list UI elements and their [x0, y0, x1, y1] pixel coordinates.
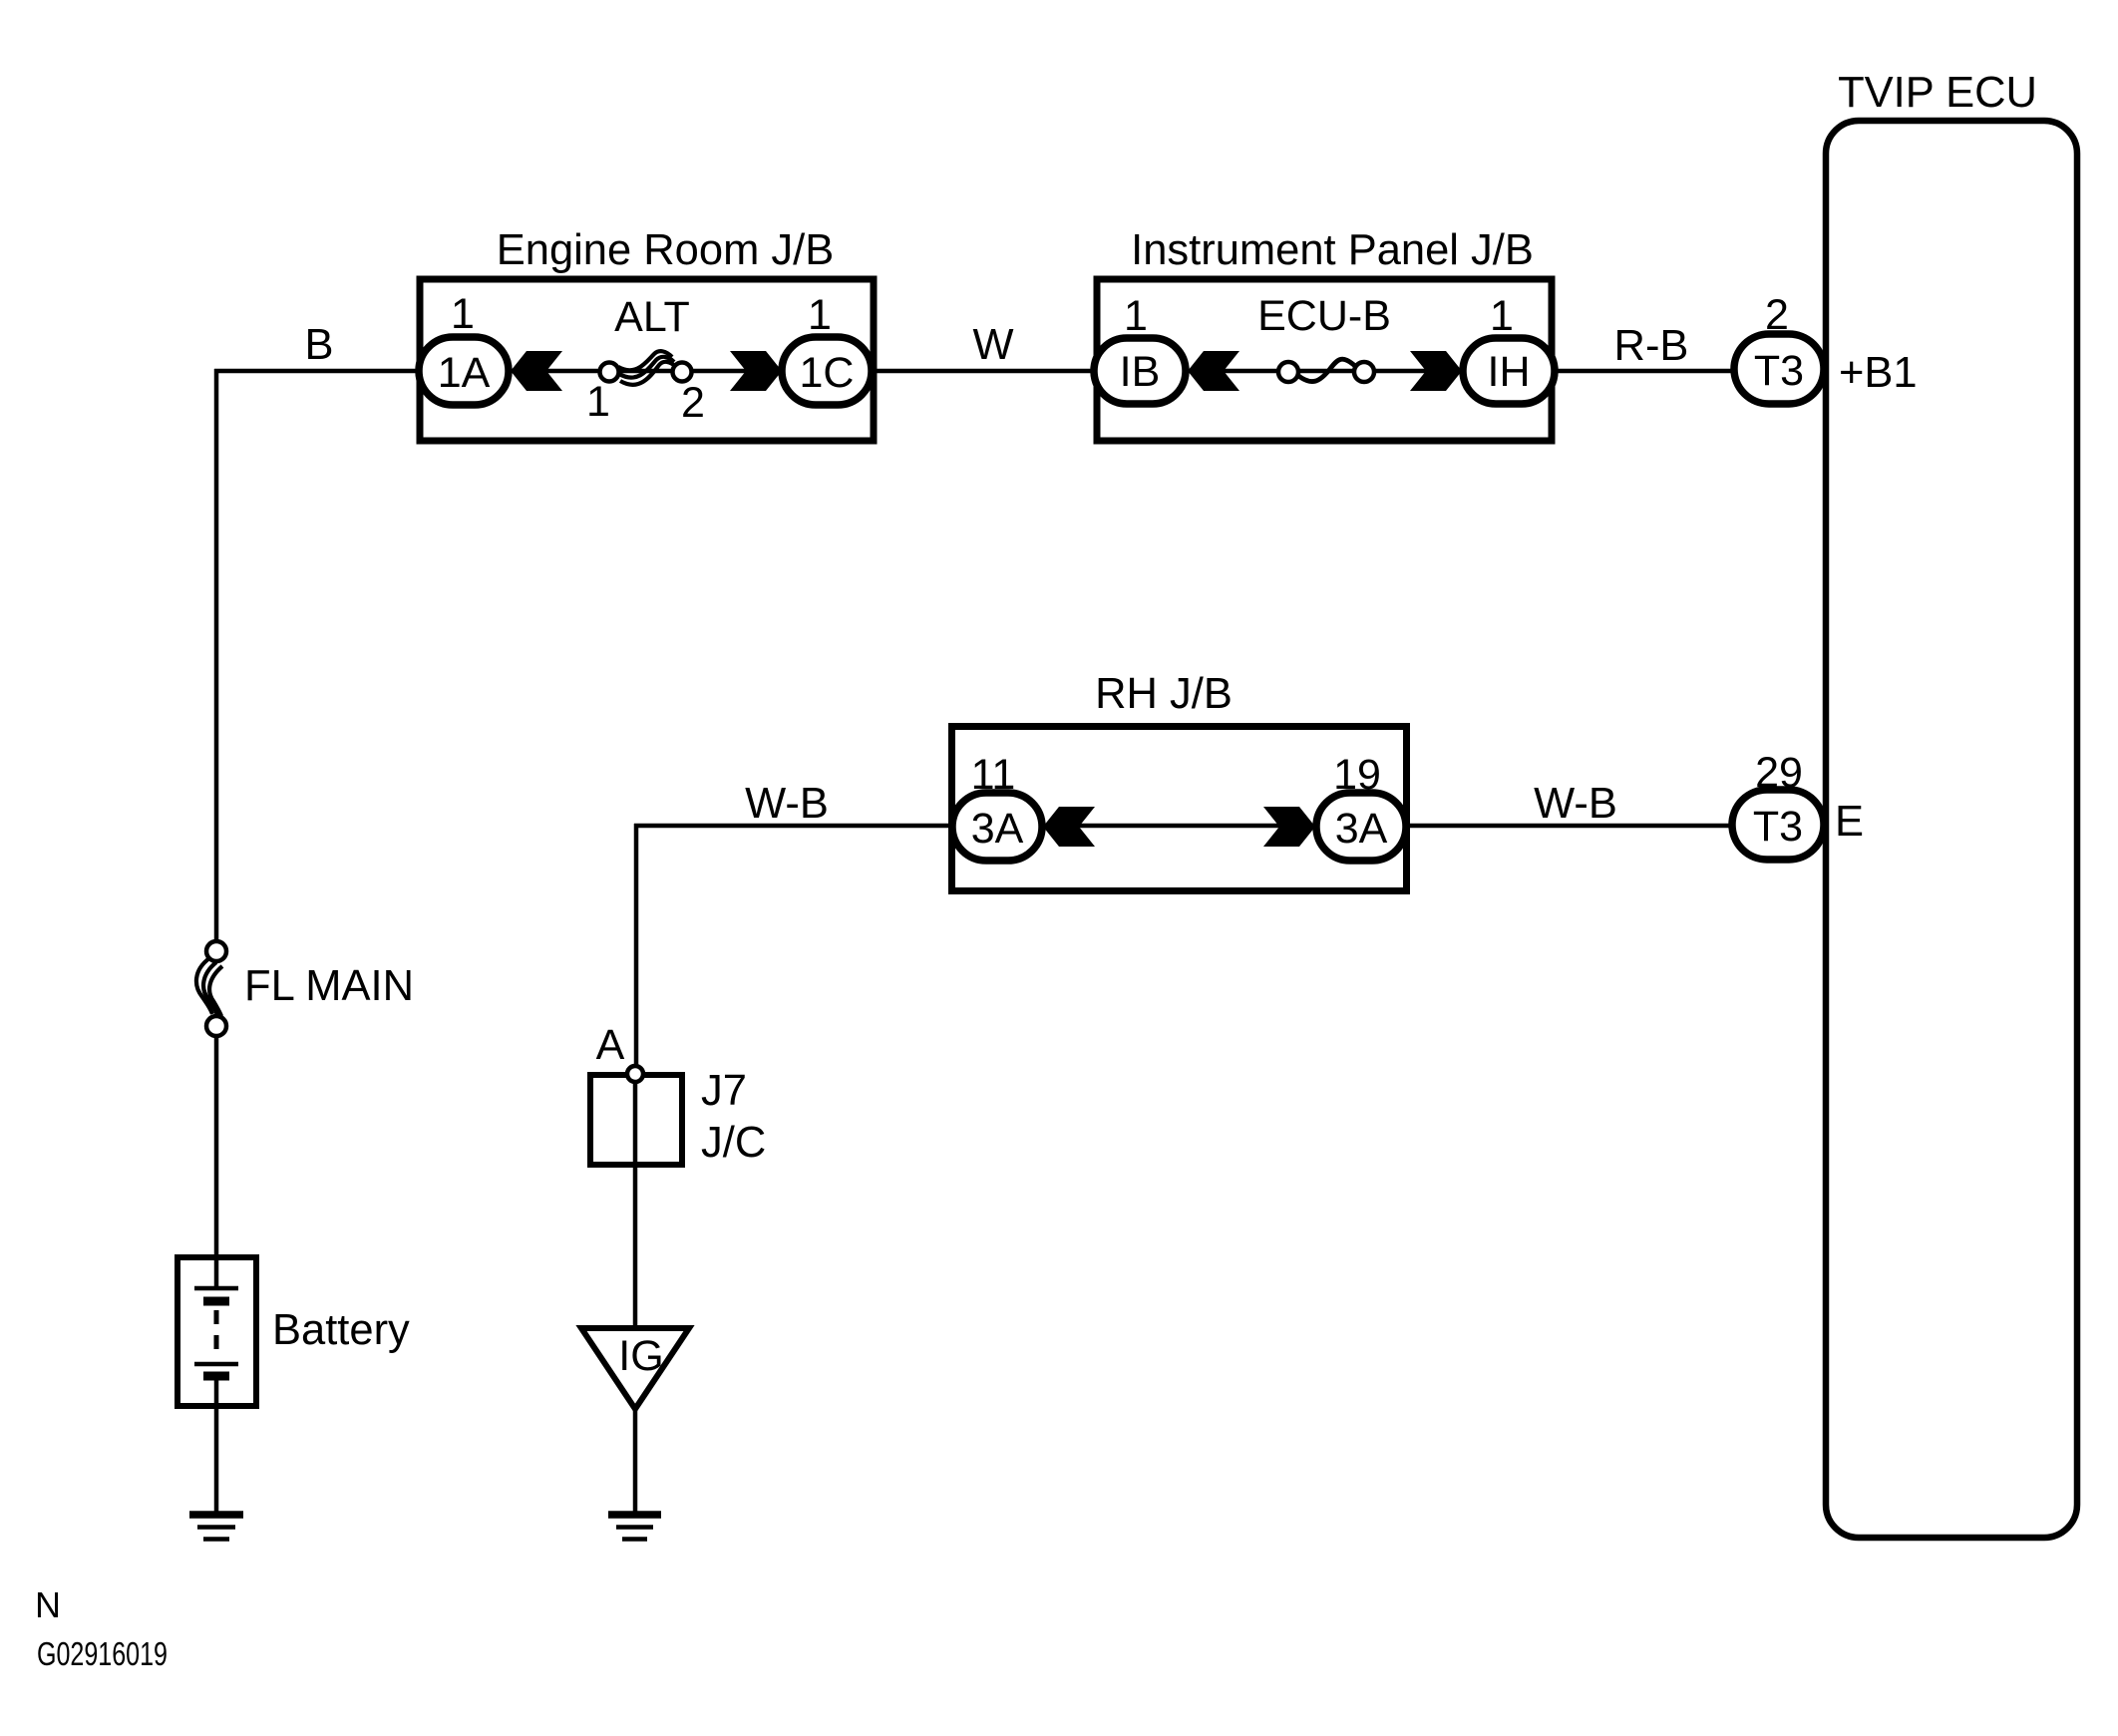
svg-text:TVIP ECU: TVIP ECU — [1838, 69, 2037, 117]
svg-text:R-B: R-B — [1614, 322, 1689, 370]
svg-text:1: 1 — [451, 290, 475, 338]
svg-text:A: A — [596, 1021, 625, 1069]
svg-text:Engine Room J/B: Engine Room J/B — [497, 226, 835, 274]
svg-text:J7: J7 — [701, 1067, 747, 1115]
svg-text:1: 1 — [1490, 292, 1514, 340]
svg-text:W-B: W-B — [745, 780, 829, 828]
svg-text:Battery: Battery — [272, 1306, 410, 1354]
svg-text:1C: 1C — [800, 349, 855, 397]
svg-text:B: B — [304, 321, 333, 369]
svg-text:G02916019: G02916019 — [37, 1635, 168, 1672]
svg-text:W-B: W-B — [1534, 780, 1617, 828]
svg-text:IB: IB — [1120, 348, 1161, 396]
svg-text:Instrument Panel J/B: Instrument Panel J/B — [1131, 226, 1534, 274]
svg-text:IG: IG — [618, 1332, 663, 1380]
svg-text:1: 1 — [586, 378, 610, 426]
svg-text:19: 19 — [1333, 751, 1381, 799]
svg-text:29: 29 — [1755, 749, 1803, 797]
svg-text:ALT: ALT — [614, 293, 690, 341]
svg-text:2: 2 — [681, 379, 705, 427]
svg-text:E: E — [1835, 798, 1864, 846]
svg-text:1A: 1A — [438, 349, 491, 397]
svg-text:2: 2 — [1765, 291, 1789, 339]
svg-text:T3: T3 — [1754, 347, 1804, 395]
svg-text:3A: 3A — [971, 805, 1024, 853]
svg-text:RH J/B: RH J/B — [1095, 670, 1233, 718]
svg-text:3A: 3A — [1335, 805, 1388, 853]
svg-text:T3: T3 — [1753, 803, 1803, 851]
svg-text:ECU-B: ECU-B — [1257, 292, 1391, 340]
svg-text:11: 11 — [971, 751, 1016, 799]
svg-text:1: 1 — [1124, 292, 1148, 340]
svg-text:IH: IH — [1488, 348, 1531, 396]
svg-text:N: N — [35, 1584, 61, 1625]
svg-text:FL MAIN: FL MAIN — [244, 962, 414, 1010]
svg-text:J/C: J/C — [701, 1119, 766, 1167]
svg-text:+B1: +B1 — [1839, 349, 1918, 397]
svg-text:W: W — [972, 321, 1013, 369]
svg-text:1: 1 — [808, 291, 832, 339]
